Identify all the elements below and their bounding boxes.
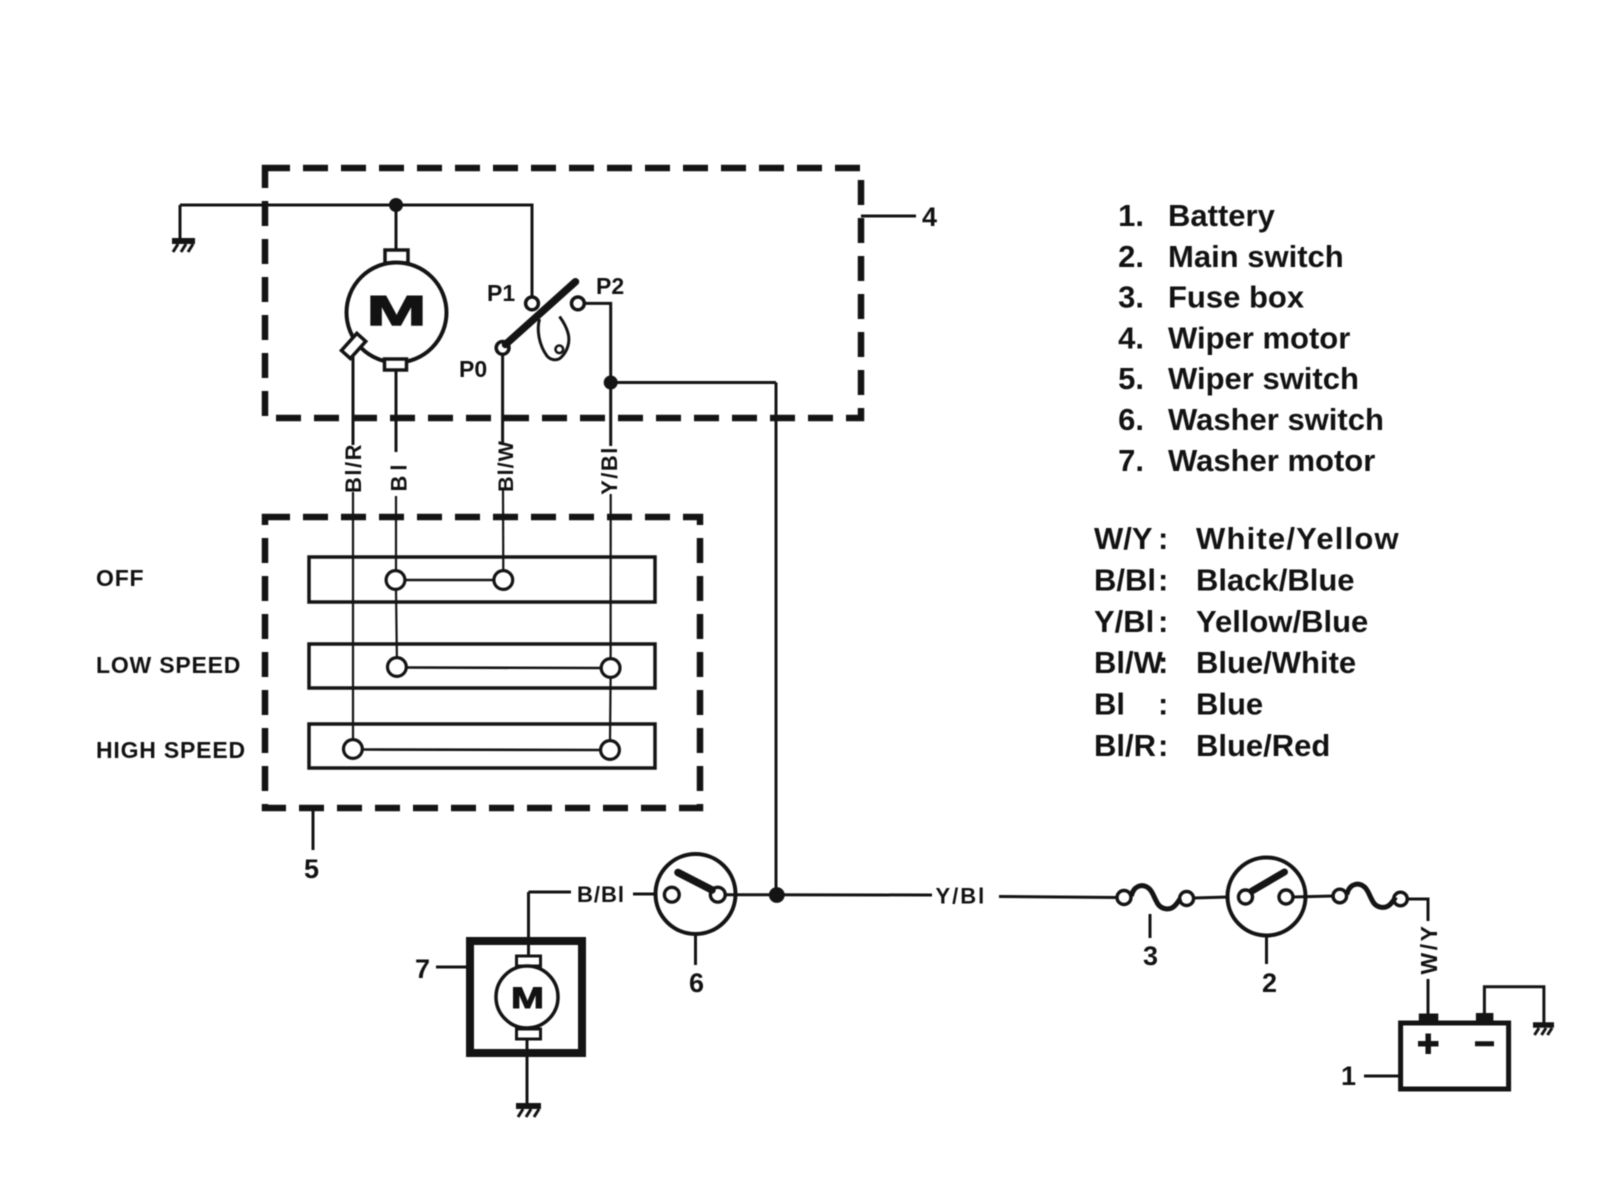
svg-text:Blue/White: Blue/White [1196,645,1356,680]
svg-text::: : [1158,687,1168,722]
wire: fuse 2 to W/Y corner [1408,899,1429,921]
wiper switch dashed box 5 [265,517,700,808]
node: bottom rail junction [770,889,783,902]
svg-text:5.: 5. [1118,361,1144,396]
svg-text:W/Y: W/Y [1416,924,1442,975]
battery 1 [1401,1013,1509,1089]
svg-text:Battery: Battery [1168,198,1276,233]
wire Bl/R upper [352,357,355,445]
svg-text:P2: P2 [596,273,624,299]
svg-text:Yellow/Blue: Yellow/Blue [1196,604,1368,639]
svg-text:Main switch: Main switch [1168,239,1344,274]
svg-text:Wiper switch: Wiper switch [1168,361,1359,396]
main switch stem [1265,936,1268,965]
svg-text:1: 1 [1341,1061,1356,1091]
washer motor box 7 [470,941,582,1053]
LOW contacts [388,658,407,677]
wire Bl/W lower [502,490,504,572]
svg-text:P1: P1 [487,280,515,306]
legend: wire colour codes [1094,521,1400,763]
wire: junction to motor top terminal [395,205,398,251]
wire Bl/R lower [352,492,354,741]
wire: long drop to washer rail [775,383,778,896]
wire Bl/W upper [501,354,504,444]
HIGH contact strip [309,724,655,768]
wire: Y/Bl to fuse [999,897,1117,898]
svg-text:2: 2 [1262,968,1277,998]
svg-text:B/Bl: B/Bl [577,882,625,907]
wire: top bus from ground to P1 [180,205,532,298]
wire Y/Bl between LOW and HIGH contacts [609,678,612,742]
label 1 leader line [1364,1075,1401,1078]
svg-text:4: 4 [922,202,937,232]
svg-text:Bl/W: Bl/W [1094,645,1164,680]
park switch lever [506,282,576,345]
wire: junction to right [611,381,776,384]
svg-text:6: 6 [689,968,704,998]
svg-text:4.: 4. [1118,320,1144,355]
wire: main switch to fuse 2 [1293,896,1333,897]
svg-text:1.: 1. [1118,198,1144,233]
wire: P2 to junction [584,303,610,382]
wire Bl upper [395,370,398,452]
svg-text:OFF: OFF [96,565,144,591]
svg-text::: : [1158,562,1168,597]
washer motor M [496,892,558,1039]
wire: B/Bl to washer switch [633,893,665,896]
svg-text::: : [1158,521,1168,556]
wire: washer switch to Y/Bl [725,893,932,896]
contact P0 [496,342,509,355]
wiper motor M [341,250,446,370]
svg-text:W/Y: W/Y [1094,521,1153,556]
svg-text:M: M [367,288,426,335]
OFF contact strip [309,557,655,602]
park cam loop [538,317,569,360]
svg-text:Bl: Bl [387,460,412,492]
svg-text:Bl/R: Bl/R [1094,728,1156,763]
svg-text:Bl/W: Bl/W [494,440,518,492]
svg-text:LOW SPEED: LOW SPEED [96,652,241,678]
svg-text:M: M [511,982,544,1015]
wire: washer motor to ground [526,1039,529,1104]
contact P2 [572,297,585,310]
svg-text:Blue: Blue [1196,687,1263,722]
HIGH contacts [344,740,363,759]
svg-text::: : [1158,604,1168,639]
fuse box 3 [1117,886,1194,909]
svg-text:Black/Blue: Black/Blue [1196,562,1355,597]
svg-text:Y/Bl: Y/Bl [597,446,622,495]
svg-text:Washer switch: Washer switch [1168,402,1384,437]
label 3 leader line [1149,914,1152,938]
svg-text:Fuse box: Fuse box [1168,280,1305,315]
svg-text:Y/Bl: Y/Bl [1094,604,1154,639]
wire Y/Bl upper [609,388,612,446]
svg-text:HIGH SPEED: HIGH SPEED [96,737,246,763]
main switch 2 [1228,858,1306,936]
wire Bl between OFF and LOW contacts [395,590,398,659]
wire: washer motor to B/Bl label [529,891,572,894]
label 7 leader line [436,966,470,969]
wiper motor dashed box 4 [265,168,861,418]
svg-text:3.: 3. [1118,280,1144,315]
wire Bl mid [395,496,397,572]
svg-text:7.: 7. [1118,443,1144,478]
LOW contact strip [309,644,655,688]
svg-text:5: 5 [304,854,319,884]
svg-text:2.: 2. [1118,239,1144,274]
ground (top left) [172,205,195,252]
svg-text:6.: 6. [1118,402,1144,437]
OFF contacts [386,571,405,590]
node: junction above motor [391,200,402,211]
svg-text:Bl/R: Bl/R [341,443,366,493]
svg-text:Blue/Red: Blue/Red [1196,728,1330,763]
wire: battery negative to ground [1484,987,1544,1023]
ground (battery) [1533,1025,1554,1035]
ground (washer motor) [516,1106,541,1117]
wire Y/Bl lower [609,494,611,660]
park cam pin [556,346,564,354]
wire: fuse to main switch [1194,897,1228,898]
svg-text:Washer motor: Washer motor [1168,443,1375,478]
label 5 leader line [312,808,315,850]
svg-text:Wiper motor: Wiper motor [1168,320,1350,355]
wire: W/Y to battery [1427,979,1430,1016]
washer switch 6 [656,854,736,934]
contact P1 [526,297,539,310]
label 4 leader line [861,215,916,218]
svg-text:B/Bl: B/Bl [1094,562,1156,597]
svg-text:7: 7 [415,954,430,984]
svg-text:3: 3 [1143,941,1158,971]
node: Y/Bl junction [605,377,616,388]
svg-text::: : [1158,728,1168,763]
svg-text::: : [1158,645,1168,680]
svg-text:Y/Bl: Y/Bl [936,884,987,909]
svg-text:P0: P0 [459,356,487,382]
fuse 2 (battery side) [1333,884,1407,907]
washer switch stem [694,934,697,965]
legend: numbered component list [1118,198,1384,478]
svg-text:Bl: Bl [1094,687,1125,722]
svg-text:White/Yellow: White/Yellow [1196,521,1400,556]
